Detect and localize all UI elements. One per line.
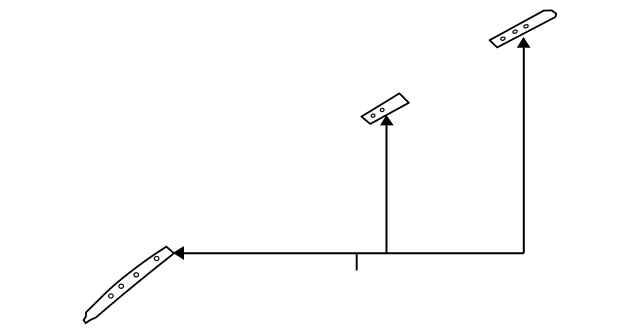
part P1 hole 1 — [154, 256, 159, 260]
part P1 hole 4 — [109, 294, 114, 298]
part P1 body (curved sill strip, lower left) — [84, 247, 174, 323]
part P3 hole 3 — [523, 24, 528, 28]
leader line middle vertical segment — [386, 125, 388, 253]
part P3 hole 2 — [512, 30, 517, 34]
arrowhead to part P1 (points left) — [174, 247, 183, 258]
part P1 hole 3 — [119, 284, 124, 288]
leader line tick mark — [356, 253, 358, 270]
part P3 hole 1 — [500, 37, 505, 41]
part P2 hole 2 — [380, 108, 385, 112]
arrowhead to part P2 (points up) — [381, 116, 392, 124]
arrowhead to part P3 (points up) — [518, 38, 529, 47]
part P2 hole 1 — [371, 113, 376, 117]
leader line horizontal segment — [183, 252, 523, 254]
part P2 body (short bracket plate, middle) — [361, 93, 408, 124]
part P3 body (long rail strip, upper right) — [490, 10, 557, 47]
part P1 hole 2 — [134, 273, 139, 277]
leader line right vertical segment — [523, 48, 525, 254]
